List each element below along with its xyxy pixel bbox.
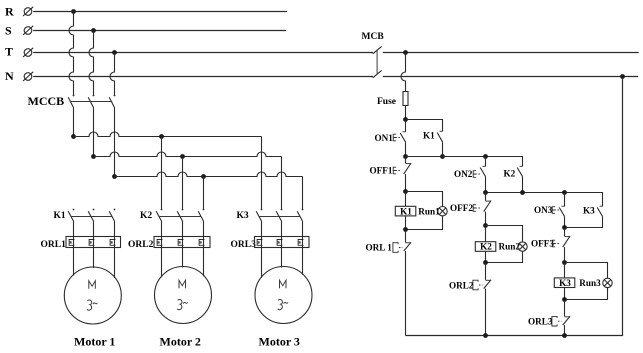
svg-text:ORL2: ORL2 [128, 240, 154, 250]
wire drop from S with hops over T N [89, 31, 94, 96]
overload relay ORL1 heater 3 [110, 240, 115, 246]
svg-text:OFF2: OFF2 [450, 203, 473, 213]
svg-text:K3: K3 [237, 211, 249, 221]
node junction bus2 left [91, 154, 96, 159]
contactor K2 mechanical link [159, 216, 202, 218]
wire K1 aux bottom to rung1 [442, 142, 444, 156]
svg-text:ORL1: ORL1 [41, 240, 67, 250]
wire ON3 bottom to node [564, 217, 566, 228]
wire K3 pole3 drop [302, 177, 304, 210]
wire bus2 feeding K2 pole2 and K3 pole2 [94, 152, 282, 157]
pushbutton ON3 contact NO [559, 206, 565, 217]
wire K3 poles through ORL3 to motor 3 [262, 222, 303, 278]
node rung2 at ON2 [483, 190, 488, 195]
overload relay ORL2 label [128, 240, 154, 250]
wire lamp2 branch top connector [486, 226, 523, 242]
svg-text:ON1: ON1 [375, 133, 394, 143]
coil K2 box [475, 226, 496, 263]
svg-text:ORL 1: ORL 1 [366, 243, 393, 253]
svg-text:ORL3: ORL3 [231, 240, 257, 250]
node K2 coil bottom [483, 260, 488, 265]
pushbutton OFF1 contact NC [404, 157, 411, 192]
node T label [5, 45, 13, 59]
wire lamp1 branch bottom connector [406, 216, 443, 230]
node junction bus3 left [112, 174, 117, 179]
contactor K2 pole 3 [198, 209, 204, 222]
svg-text:Motor 3: Motor 3 [259, 335, 300, 349]
node K2 coil top [483, 223, 488, 228]
overload relay ORL3 heater 1 [257, 240, 262, 246]
lamp Run1 label [418, 206, 440, 216]
svg-text:MCB: MCB [362, 32, 385, 42]
wire drop from R with hops over S T N [69, 12, 74, 96]
contactor K1 pole 1 [68, 209, 74, 222]
wire K2 poles through ORL2 to motor 2 [162, 222, 204, 278]
svg-text:OFF1: OFF1 [370, 166, 393, 176]
pushbutton ON1 label [375, 133, 394, 143]
wire K3 pole2 drop [281, 157, 283, 210]
contact K2 aux NO [517, 166, 523, 177]
wire MCCB pole2 to bus2 [93, 108, 95, 157]
svg-text:K2: K2 [504, 169, 516, 179]
overload relay ORL2 heater 2 [178, 240, 183, 246]
wire K2 pole2 drop [182, 157, 184, 210]
breaker MCB pole on N line [371, 70, 381, 77]
contactor K3 mechanical link [259, 216, 301, 218]
breaker MCB pole on T line [371, 46, 381, 53]
node junction bus1 to K2 pole1 [159, 134, 164, 139]
contactor K1 pole 2 [88, 209, 94, 222]
node K1 coil top [403, 189, 408, 194]
node control branch1 top [403, 117, 408, 122]
node bus ORL3 junction [562, 333, 567, 338]
contactor K3 pole 3 [297, 209, 303, 222]
node junction N to return wire [620, 74, 625, 79]
svg-text:K2: K2 [140, 211, 152, 221]
breaker MCCB mechanical link [71, 101, 113, 103]
svg-text:ON2: ON2 [454, 169, 473, 179]
node rung1 to branch2 [483, 154, 488, 159]
pushbutton ON2 actuator [473, 171, 481, 178]
pushbutton OFF3 label [531, 239, 554, 249]
svg-text:ORL3: ORL3 [528, 317, 553, 327]
lamp Run1 [438, 207, 447, 216]
wire MCCB pole3 to bus3 [114, 108, 116, 177]
svg-text:Run2: Run2 [499, 242, 521, 252]
fuse label [377, 97, 396, 107]
contact K2 aux label [504, 169, 516, 179]
node branch3 bottom [562, 225, 567, 230]
wire rung1 to K2 aux corner [406, 157, 523, 167]
wire phase R [33, 11, 287, 13]
svg-text:K3: K3 [583, 206, 595, 216]
pushbutton ON1 actuator [393, 134, 401, 141]
overload relay ORL3 label [231, 240, 257, 250]
svg-text:T: T [5, 45, 13, 59]
node junction R drop [71, 9, 76, 14]
wire phase T left of MCB [33, 52, 372, 54]
pushbutton ON2 contact NO [480, 166, 486, 177]
node rung2 to branch3 [562, 190, 567, 195]
breaker MCCB pole 3 [109, 95, 115, 108]
wire bus1 feeding K2 pole1 and K3 pole1 [74, 132, 262, 137]
node K3 coil top [562, 260, 567, 265]
wire K3 aux bottom connector [565, 217, 603, 228]
contactor K1 label [54, 211, 66, 221]
wire lamp1 branch top connector [406, 192, 443, 207]
lamp Run2 [518, 242, 527, 251]
contactor K3 label [237, 211, 249, 221]
coil K3 box [554, 263, 575, 300]
breaker MCCB pole 1 [68, 95, 74, 108]
pushbutton OFF3 actuator [552, 240, 560, 247]
wire ON3 top terminal [564, 193, 566, 207]
breaker MCB label [362, 32, 385, 42]
contact K1 aux label [423, 131, 435, 141]
wire lamp3 branch top connector [565, 263, 608, 279]
pushbutton OFF1 actuator [393, 167, 401, 174]
overload contact ORL2 NC [484, 263, 491, 336]
contactor K3 pole 2 [276, 209, 282, 222]
node R label [5, 4, 14, 18]
contact K3 aux NO [597, 206, 603, 217]
contactor K1 pole 3 [109, 209, 115, 222]
source terminal T [23, 48, 33, 57]
svg-text:Run3: Run3 [579, 278, 601, 288]
svg-text:Fuse: Fuse [377, 97, 396, 107]
wire MCCB pole1 to bus1 [73, 108, 75, 137]
wire phase T right of MCB [383, 52, 639, 54]
node junction T drop [112, 50, 117, 55]
wire K3 pole1 drop [261, 137, 263, 210]
breaker MCCB pole 2 [88, 95, 94, 108]
overload relay ORL2 box [154, 237, 210, 248]
node N label [5, 69, 14, 83]
svg-text:Run1: Run1 [418, 206, 440, 216]
breaker MCCB label [28, 94, 65, 108]
breaker MCB mechanical link [376, 50, 378, 74]
node rung1 at K1 aux [440, 154, 445, 159]
motor M2 caption [160, 335, 201, 349]
pushbutton OFF1 label [370, 166, 393, 176]
svg-text:ON3: ON3 [534, 205, 553, 215]
node K1 coil bottom [403, 227, 408, 232]
wire lamp2 branch bottom connector [486, 251, 523, 262]
pushbutton ON3 actuator [552, 207, 560, 214]
wire lamp3 branch bottom connector [565, 288, 608, 300]
overload relay ORL3 heater 2 [277, 240, 282, 246]
wire ON1 top terminal [405, 120, 407, 132]
overload relay ORL2 heater 3 [199, 240, 204, 246]
lamp Run3 label [579, 278, 601, 288]
svg-text:R: R [5, 4, 14, 18]
overload contact ORL1 actuator [393, 243, 403, 253]
wire K1 poles through ORL1 to motor 1 [74, 222, 115, 279]
svg-text:K1: K1 [54, 211, 66, 221]
wire ON2 bottom to rung2 [485, 177, 487, 193]
source terminal S [23, 26, 33, 35]
overload relay ORL1 box [66, 237, 121, 248]
node S label [5, 24, 12, 38]
pushbutton OFF2 contact NC [484, 193, 491, 226]
motor M3 caption [259, 335, 300, 349]
wire branch1 top connector to K1 aux [406, 120, 443, 132]
overload contact ORL1 NC [404, 230, 411, 336]
motor M2 [155, 267, 212, 324]
overload relay ORL3 box [255, 237, 310, 248]
wire K2 aux bottom to rung2 [522, 177, 524, 193]
motor M3 [255, 267, 312, 324]
contactor K1 mechanical link [71, 216, 113, 218]
wire bottom return bus [406, 77, 623, 336]
overload relay ORL2 heater 1 [157, 240, 162, 246]
wire drop from T with hop over N [110, 53, 115, 96]
contactor K2 pole 1 [156, 209, 162, 222]
svg-text:Motor 2: Motor 2 [160, 335, 201, 349]
node K3 coil bottom [562, 297, 567, 302]
source terminal R [23, 7, 33, 16]
svg-text:Motor 1: Motor 1 [74, 335, 115, 349]
overload relay ORL3 heater 3 [298, 240, 303, 246]
svg-text:N: N [5, 69, 14, 83]
svg-text:OFF3: OFF3 [531, 239, 554, 249]
wire ON2 top terminal [485, 157, 487, 167]
svg-text:ORL2: ORL2 [449, 281, 474, 291]
svg-text:K1: K1 [400, 206, 412, 216]
node rung2 at K2 aux [520, 190, 525, 195]
svg-text:K3: K3 [559, 278, 571, 288]
node junction bus1 left [71, 134, 76, 139]
pushbutton OFF2 actuator [473, 205, 481, 212]
overload contact ORL1 label [366, 243, 393, 253]
wire fuse to node [405, 106, 407, 120]
wire K2 pole3 drop [203, 177, 205, 210]
pushbutton ON3 label [534, 205, 553, 215]
node junction S drop [91, 28, 96, 33]
contactor K3 pole 1 [256, 209, 262, 222]
svg-text:K2: K2 [480, 242, 492, 252]
contactor K2 pole 2 [177, 209, 183, 222]
overload contact ORL2 label [449, 281, 474, 291]
lamp Run3 [603, 278, 612, 287]
source terminal N [23, 72, 33, 81]
node junction T to fuse [403, 50, 408, 55]
pushbutton OFF2 label [450, 203, 473, 213]
node junction bus3 to K2 pole3 [201, 174, 206, 179]
contact K3 aux label [583, 206, 595, 216]
wire phase N right of MCB [383, 76, 638, 78]
svg-text:MCCB: MCCB [28, 94, 65, 108]
overload relay ORL1 label [41, 240, 67, 250]
overload contact ORL2 actuator [473, 280, 483, 290]
node rung1 at ON1 [403, 154, 408, 159]
wire ON1 bottom to rung1 [405, 142, 407, 156]
pushbutton ON2 label [454, 169, 473, 179]
pushbutton ON1 contact NO [400, 132, 406, 143]
svg-text:K1: K1 [423, 131, 435, 141]
pushbutton OFF3 contact NC [563, 228, 570, 263]
overload contact ORL3 label [528, 317, 553, 327]
fuse body [403, 92, 408, 106]
motor M1 [64, 267, 121, 324]
wire phase N left of MCB [33, 76, 372, 78]
wire phase S [33, 30, 286, 32]
motor M1 caption [74, 335, 115, 349]
overload relay ORL1 heater 1 [69, 240, 74, 246]
wire K2 pole1 drop [161, 137, 163, 210]
overload contact ORL3 actuator [552, 316, 562, 326]
lamp Run2 label [499, 242, 521, 252]
overload contact ORL3 NC [563, 300, 570, 336]
wire fuse drop with hop over N [401, 53, 406, 92]
contactor K2 label [140, 211, 152, 221]
svg-text:S: S [5, 24, 12, 38]
wire bus3 feeding K2 pole3 and K3 pole3 [115, 172, 303, 177]
contact K1 aux NO [437, 131, 443, 142]
node bus ORL2 junction [483, 333, 488, 338]
coil K1 box [395, 192, 416, 230]
wire rung2 to K3 aux corner [486, 193, 603, 207]
node junction bus2 to K2 pole2 [180, 154, 185, 159]
overload relay ORL1 heater 2 [89, 240, 94, 246]
